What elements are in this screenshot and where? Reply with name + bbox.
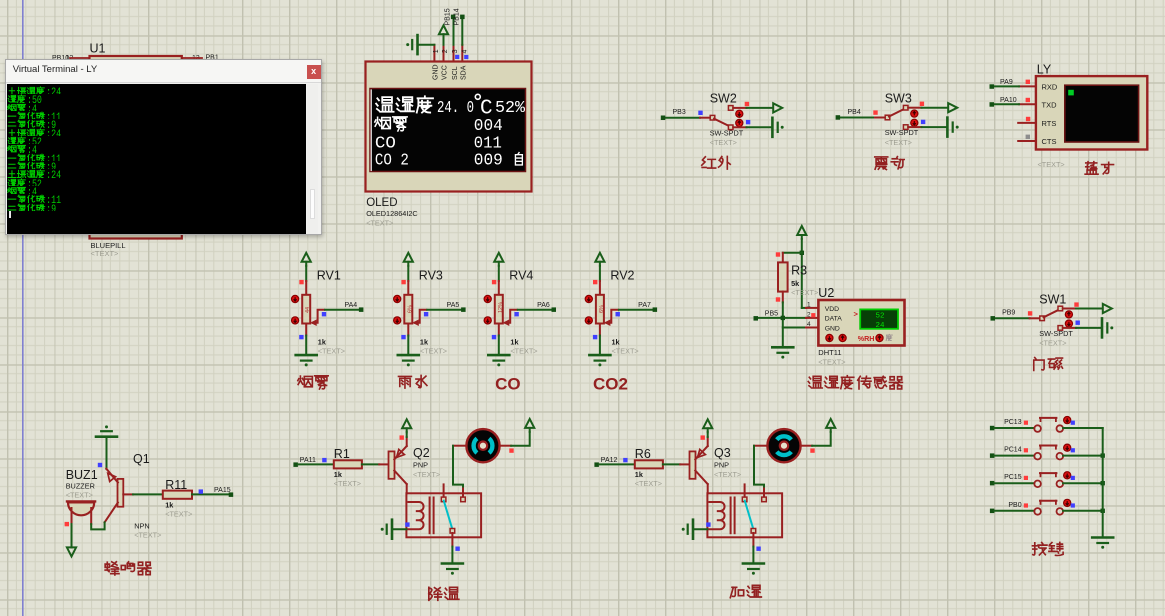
svg-text:<TEXT>: <TEXT> (714, 470, 741, 479)
red marker Q3 emitter (701, 435, 705, 439)
terminal PC15 (990, 474, 1022, 485)
svg-text:PB15: PB15 (445, 8, 452, 25)
motor (466, 429, 499, 462)
svg-text:RXD: RXD (1042, 83, 1058, 92)
power arrow (Q3 emitter) (703, 419, 712, 432)
wire button bus vertical (1102, 428, 1104, 536)
wire Q2 emitter to power (406, 432, 408, 446)
LY pin TXD (1019, 100, 1057, 109)
R3 value 5k (791, 279, 800, 288)
svg-text:VCC: VCC (442, 65, 449, 80)
svg-text:<TEXT>: <TEXT> (1039, 339, 1066, 348)
power arrow (SW3) (948, 103, 957, 112)
pin-state marker near SW2 pole (698, 111, 702, 115)
terminal console text (7, 86, 127, 211)
svg-text::24: :24 (46, 87, 61, 94)
wire PC13 to button (994, 427, 1034, 429)
terminal PA10 (990, 97, 1017, 107)
power VCC arrow (OLED) (439, 25, 448, 45)
Q3 type PNP (714, 460, 729, 469)
R1 value 1k (334, 470, 343, 479)
switch SW1 reference label (1039, 292, 1066, 306)
terminal scrollbar (307, 84, 318, 233)
power arrow (RV3) (404, 253, 413, 266)
terminal close button (307, 65, 321, 79)
BUZ1 reference label (66, 468, 98, 482)
junction node PB5/R3 (781, 316, 785, 320)
relay core lines (731, 498, 735, 534)
blue marker PB0 (1071, 503, 1075, 507)
switch SW3 throw pins (903, 105, 908, 129)
svg-text::11: :11 (46, 112, 61, 119)
svg-text:<TEXT>: <TEXT> (134, 531, 161, 540)
svg-text:RV1: RV1 (317, 269, 341, 283)
svg-text:3: 3 (452, 49, 459, 53)
RV4 wiper arm (503, 310, 518, 326)
wire power to RV4 top (498, 266, 500, 296)
toggle actuator PC14 (1064, 444, 1071, 451)
wire relay common to ground (451, 547, 453, 563)
svg-text:1: 1 (807, 301, 811, 308)
wire R1 to Q2 base (362, 463, 389, 465)
wire motor left to relay NO contact (754, 446, 767, 487)
svg-text:<TEXT>: <TEXT> (420, 347, 447, 356)
svg-text:Q1: Q1 (133, 452, 150, 466)
svg-text:<TEXT>: <TEXT> (710, 138, 737, 147)
svg-text:SW-SPDT: SW-SPDT (710, 128, 744, 137)
resistor R6 body (635, 460, 663, 468)
red marker RV4 top (492, 280, 496, 284)
LY screen green cursor block (1068, 90, 1074, 96)
R11 reference label (165, 478, 187, 492)
wire PA10 to TXD (994, 103, 1019, 105)
potentiometer RV4 body (495, 295, 504, 324)
power arrow (SW1) (1103, 304, 1112, 313)
switch SW1 (door sensor) wire from terminal (995, 317, 1040, 319)
RV4 reference label (509, 269, 533, 283)
svg-text:SCL: SCL (452, 66, 459, 80)
U1 right pin label PB1 pin 13 (182, 55, 219, 63)
wire relay coil to ground (left) (392, 528, 406, 530)
RV2 value 1k (612, 338, 621, 347)
svg-text:R11: R11 (165, 478, 187, 492)
red marker Q2 emitter (400, 435, 404, 439)
ground (relay coil, facing left) (682, 520, 693, 539)
U1 model label BLUEPILL (91, 241, 126, 250)
svg-text:SW-SPDT: SW-SPDT (885, 128, 919, 137)
wire button PC13 to bus (1063, 427, 1103, 429)
terminal PB15 (445, 8, 456, 25)
terminal PB0 (990, 502, 1022, 513)
U2 display arrow marker (854, 310, 859, 319)
relay common pin (450, 529, 455, 547)
terminal cursor (9, 211, 11, 218)
push button PC14 actuator cap (1040, 446, 1056, 449)
wire PB0 to button (994, 510, 1034, 512)
terminal PA4 (344, 302, 363, 312)
U2 degree glyph (886, 334, 892, 340)
ground (button bus) (1092, 538, 1113, 549)
wire buzzer right pin to Q1 collector (91, 522, 104, 529)
potentiometer RV3 body (404, 295, 413, 324)
ground (SW3, facing right) (947, 118, 958, 137)
wire RV3 bottom to ground (407, 324, 409, 355)
relay contact pins (742, 484, 766, 501)
svg-text:Q2: Q2 (413, 446, 430, 460)
svg-text::4: :4 (27, 146, 37, 153)
svg-text:PB3: PB3 (673, 109, 686, 116)
wire relay coil to ground (left) (693, 528, 707, 530)
wire power to RV3 top (407, 266, 409, 296)
relay coil (407, 502, 423, 529)
blue marker RV4 bottom (492, 335, 496, 339)
switch SW2 model SW-SPDT (710, 128, 744, 137)
blue marker RV3 wiper (424, 312, 428, 316)
label temperature-humidity sensor (808, 376, 902, 389)
R6 value 1k (635, 470, 644, 479)
OLED pin 4 SDA stub (461, 45, 463, 62)
OLED display module OLED1 body (366, 62, 532, 192)
wire SCL to PB15 terminal (453, 19, 455, 45)
switch SW3 lever (889, 109, 905, 117)
label humidify (jia shi) (730, 585, 761, 597)
svg-text:<TEXT>: <TEXT> (612, 347, 639, 356)
ground (RV1) (296, 355, 317, 366)
wire R11 to PA15 (192, 493, 229, 495)
LY reference label (1037, 63, 1052, 77)
OLED pin 2 VCC stub (443, 45, 445, 62)
RV2 reference label (610, 269, 634, 283)
red marker PC15 (1024, 476, 1028, 480)
svg-text:4: 4 (462, 50, 469, 54)
wire power to RV1 top (305, 266, 307, 296)
svg-text:2: 2 (442, 49, 449, 53)
blue marker RV3 bottom (401, 335, 405, 339)
svg-text:PA6: PA6 (537, 302, 550, 309)
virtual terminal popup window "Virtual Terminal - LY" (5, 59, 323, 236)
push button PC13 contacts (1034, 425, 1063, 432)
switch SW3 (vibration) wire from terminal (840, 117, 885, 119)
wire PC15 to button (994, 482, 1034, 484)
wire power to junction (801, 239, 803, 253)
sheet border line (22, 0, 24, 616)
svg-text:44: 44 (305, 307, 311, 313)
potentiometer RV1 body (302, 295, 311, 324)
power arrow (motor) (525, 419, 534, 432)
U2 model DHT11 (818, 348, 841, 357)
wire ground to Q1 (106, 437, 108, 469)
DHT11 pin numbers (807, 301, 811, 328)
toggle actuator PC15 (1064, 472, 1071, 479)
terminal PC14 (990, 447, 1022, 458)
svg-text:PNP: PNP (714, 460, 729, 469)
junction node bus/PC14 (1101, 453, 1105, 457)
switch SW3 pole pin (885, 115, 890, 120)
transistor Q1 (NPN) (105, 469, 124, 523)
blue marker SW3 lower (921, 120, 925, 124)
svg-text:<TEXT>: <TEXT> (91, 249, 120, 258)
svg-text::9: :9 (46, 162, 56, 169)
U2 display readings 52 / 24 (875, 313, 885, 330)
Q1 type NPN (134, 522, 149, 531)
svg-text:CTS: CTS (1042, 137, 1057, 146)
RV2 wiper arm (604, 310, 619, 326)
svg-text:PC13: PC13 (1004, 419, 1022, 426)
svg-text:1k: 1k (510, 338, 519, 347)
svg-text:1k: 1k (334, 470, 343, 479)
svg-text:VDD: VDD (825, 306, 839, 313)
blue marker RV4 wiper (514, 312, 518, 316)
blue marker RV1 bottom (299, 335, 303, 339)
blue marker SW2 lower (746, 120, 750, 124)
OLED pin names GND VCC SCL SDA (rotated) (433, 64, 468, 80)
svg-text:>: > (854, 310, 859, 319)
svg-text:SW3: SW3 (885, 92, 912, 106)
switch SW1 lever (1044, 310, 1060, 318)
R1 reference label (334, 447, 350, 461)
wire RV1 wiper to terminal (325, 309, 359, 311)
blue marker relay coil left (405, 522, 409, 526)
switch SW2 pole pin (710, 115, 715, 120)
LY pin RTS (1018, 119, 1056, 128)
wire button PB0 to bus (1063, 510, 1103, 512)
svg-text:PA10: PA10 (1000, 97, 1017, 104)
svg-text:SDA: SDA (461, 65, 468, 80)
blue marker RV2 wiper (616, 312, 620, 316)
wire Q2 collector to relay coil (406, 484, 408, 493)
pin-state circles RV1 (292, 295, 299, 324)
wire relay common to ground (752, 547, 754, 563)
power arrow (RV1) (302, 253, 311, 266)
RV4 value 1k (510, 338, 519, 347)
wire PC14 to button (994, 455, 1034, 457)
svg-text:PB4: PB4 (848, 109, 861, 116)
red marker above SW1 upper wire (1074, 302, 1078, 306)
wire power to RV2 top (599, 266, 601, 296)
wire motor left to relay NO contact (453, 446, 466, 487)
svg-text:4: 4 (807, 321, 811, 328)
svg-text:6%: 6% (599, 305, 605, 313)
pin-state circles RV4 (484, 295, 491, 324)
red marker PC14 (1024, 448, 1028, 452)
blue pin-state markers OLED pins 3 4 (455, 55, 468, 59)
svg-text:DATA: DATA (825, 316, 843, 323)
R11 value 1k (165, 501, 174, 510)
LY pin RXD (1019, 83, 1058, 92)
svg-text:R6: R6 (635, 447, 651, 461)
microcontroller U1 (BLUEPILL board, mostly hidden) (90, 56, 182, 239)
terminal PA7 (638, 302, 657, 312)
svg-text:SW1: SW1 (1039, 292, 1066, 306)
wire OLED GND to ground (418, 44, 434, 46)
relay contact pins (441, 484, 465, 501)
push button PC14 contacts (1034, 453, 1063, 460)
blue marker PC15 (1071, 476, 1075, 480)
blue marker relay common (756, 547, 760, 551)
red marker above SW3 upper wire (920, 102, 924, 106)
blue marker RV1 wiper (322, 312, 326, 316)
wire SW2 lower throw to ground (733, 126, 772, 128)
svg-text:<TEXT>: <TEXT> (1038, 160, 1065, 169)
resistor R11 body (163, 491, 192, 499)
svg-text:Q3: Q3 (714, 446, 731, 460)
blue marker PA11 (322, 458, 326, 462)
wire PA11 to R1 (298, 463, 334, 465)
svg-text:TXD: TXD (1042, 100, 1058, 109)
red marker motor right (810, 448, 814, 452)
wire junction to R3 top (783, 253, 802, 263)
terminal PA11 (293, 457, 316, 467)
relay box (707, 493, 782, 537)
terminal PB14 (454, 8, 465, 25)
R6 reference label (635, 447, 651, 461)
svg-text::50: :50 (27, 96, 42, 103)
svg-text:LY: LY (1037, 63, 1052, 77)
push button PB0 contacts (1034, 508, 1063, 515)
U2 %RH label (858, 334, 875, 343)
svg-text:<TEXT>: <TEXT> (413, 470, 440, 479)
wire RV4 bottom to ground (498, 324, 500, 355)
svg-text:1k: 1k (420, 338, 429, 347)
svg-text:1k: 1k (318, 338, 327, 347)
wire junction down to VDD pin (802, 253, 806, 308)
svg-text:OLED12864I2C: OLED12864I2C (366, 209, 418, 218)
Q2 reference label (413, 446, 430, 460)
svg-text:<TEXT>: <TEXT> (818, 358, 845, 367)
blue marker RV2 bottom (593, 335, 597, 339)
label sensor name (298, 376, 328, 389)
label buzzer (feng ming qi) (105, 562, 151, 575)
U1 reference label (90, 42, 106, 56)
svg-text:PC14: PC14 (1004, 447, 1022, 454)
wire SW3 lower throw to ground (908, 126, 947, 128)
relay core lines (430, 498, 434, 534)
red marker motor right (509, 448, 513, 452)
OLED screen line 2: smoke 004 (375, 117, 503, 136)
red marker buzzer left pin (65, 522, 69, 526)
power arrow down (buzzer) (67, 543, 76, 556)
ground (SW2, facing right) (772, 118, 783, 137)
toggle actuators SW2 (736, 110, 743, 126)
relay moving contact (cyan) (745, 501, 754, 529)
resistor R3 body (778, 262, 788, 291)
U2 adjust buttons (826, 334, 846, 341)
svg-text:12%: 12% (498, 302, 504, 313)
pin-state markers LY pins (1026, 80, 1031, 139)
ground (DHT11) (772, 347, 793, 358)
OLED pin 3 SCL stub (453, 45, 455, 62)
switch SW1 pole pin (1040, 316, 1045, 321)
label sensor name (398, 375, 426, 388)
svg-text:1k: 1k (635, 470, 644, 479)
svg-text:1: 1 (433, 49, 440, 53)
BUZ1 model BUZZER (66, 482, 95, 491)
terminal PB9 (991, 310, 1016, 321)
svg-text:PA7: PA7 (638, 302, 651, 309)
LY pin CTS (1018, 137, 1056, 146)
push button PC15 actuator cap (1040, 473, 1056, 476)
terminal title bar (6, 60, 322, 83)
wire SW3 upper throw to power arrow (908, 107, 948, 109)
power arrow (RV4) (494, 253, 503, 266)
DHT11 pin stubs 1 2 4 (806, 308, 818, 328)
U1 left pin label PB10 pin 12 (52, 55, 90, 62)
wire PA9 to RXD (994, 85, 1019, 87)
blue marker SW1 lower (1076, 321, 1080, 325)
svg-text:1k: 1k (612, 338, 621, 347)
svg-text::52: :52 (27, 179, 42, 186)
wire SW1 lower throw to ground (1063, 327, 1102, 329)
svg-text::52: :52 (27, 137, 42, 144)
OLED pin 1 GND stub (433, 45, 435, 62)
toggle actuator PB0 (1064, 499, 1071, 506)
ground (RV3) (398, 355, 419, 366)
terminal PB4 (836, 109, 861, 120)
red marker PC13 (1024, 421, 1028, 425)
svg-text:BUZZER: BUZZER (66, 482, 95, 491)
blue marker relay coil left (706, 522, 710, 526)
Q3 reference label (714, 446, 731, 460)
RV1 reference label (317, 269, 341, 283)
svg-text:5k: 5k (791, 279, 800, 288)
wire RV4 wiper to terminal (518, 309, 552, 311)
switch SW3 model SW-SPDT (885, 128, 919, 137)
red marker R3 bottom (776, 297, 780, 301)
RV3 reference label (419, 269, 443, 283)
svg-text:BUZ1: BUZ1 (66, 468, 98, 482)
svg-text:PA12: PA12 (601, 457, 618, 464)
ground (RV4) (488, 355, 509, 366)
OLED pin numbers 1 2 3 4 (433, 49, 469, 53)
svg-text:U2: U2 (818, 286, 834, 300)
svg-text:RV2: RV2 (610, 269, 634, 283)
power arrow (DHT11 VDD) (797, 226, 806, 239)
svg-text:R3: R3 (791, 264, 807, 278)
transistor Q3 (PNP) (690, 446, 708, 484)
RV3 value 1k (420, 338, 429, 347)
red marker above SW2 upper wire (745, 102, 749, 106)
wire GND pin branch (783, 327, 806, 329)
svg-text::24: :24 (46, 171, 61, 178)
Q1 reference label (133, 452, 150, 466)
wire RV3 wiper to terminal (427, 309, 461, 311)
switch SW3 reference label (885, 92, 912, 106)
R3 reference label (791, 264, 807, 278)
svg-text:SW2: SW2 (710, 92, 737, 106)
svg-text::9: :9 (46, 121, 56, 128)
svg-text:RV3: RV3 (419, 269, 443, 283)
svg-text:<TEXT>: <TEXT> (334, 479, 361, 488)
svg-text:DHT11: DHT11 (818, 348, 841, 357)
svg-text:PB9: PB9 (1002, 310, 1015, 317)
wire button PC14 to bus (1063, 455, 1103, 457)
U2 reference label (818, 286, 834, 300)
label CO2 (593, 375, 628, 394)
red marker PB0 (1024, 503, 1028, 507)
svg-text:PNP: PNP (413, 460, 428, 469)
wire Q3 collector to relay coil (707, 484, 709, 493)
svg-text:CO2: CO2 (593, 375, 628, 394)
OLED screen line 1: temperature/humidity (376, 94, 526, 120)
label bluetooth (lan ya) (1085, 162, 1113, 175)
switch SW1 throw pins (1058, 306, 1063, 330)
toggle actuators SW3 (911, 110, 918, 126)
virtual terminal instrument LY (bluetooth) body (1036, 76, 1147, 149)
svg-text::24: :24 (46, 129, 61, 136)
svg-text:004: 004 (474, 117, 503, 136)
switch SW2 lever (714, 119, 730, 127)
label CO (495, 375, 520, 394)
